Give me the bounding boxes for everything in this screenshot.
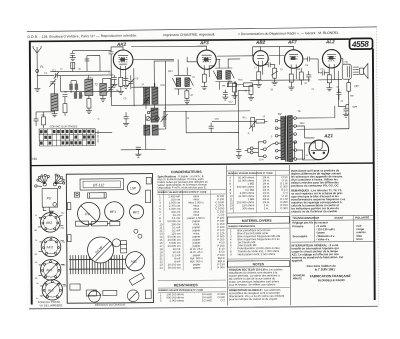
osc long wire right <box>158 61 166 129</box>
sheet number box 4558 <box>349 38 372 49</box>
wire bottom bus <box>60 75 121 91</box>
svg-text:RÉSISTANCES: RÉSISTANCES <box>174 282 199 287</box>
svg-text:DESSOUS DU CHASSIS: DESSOUS DU CHASSIS <box>95 303 126 307</box>
grid cap wire AF7 <box>280 46 294 64</box>
capacitor C12 <box>306 71 311 82</box>
resistor under MF1 R14 <box>185 89 194 101</box>
svg-text:PU: PU <box>47 196 52 200</box>
osc long wire left <box>134 68 144 106</box>
svg-text:AVANT: AVANT <box>334 216 343 220</box>
svg-text:4558: 4558 <box>351 39 370 49</box>
wire C1 to grid bus <box>57 74 113 76</box>
svg-text:350v: 350v <box>300 123 306 125</box>
IF transformer MF1 <box>172 75 193 89</box>
svg-text:⁄ valve 4 v.: ⁄ valve 4 v. <box>315 237 330 241</box>
resistor R4 <box>202 74 206 87</box>
svg-text:100.000 ohms600.000 ohms2.000: 100.000 ohms600.000 ohms2.000 ohms <box>166 292 184 302</box>
volume potentiometer P1 <box>271 65 278 83</box>
ground <box>34 88 40 91</box>
small capacitor block <box>112 239 120 247</box>
tube AF7 <box>284 39 303 68</box>
svg-text:châssis vu de l'intérieur: châssis vu de l'intérieur du meuble. <box>291 209 338 213</box>
svg-text:AF3: AF3 <box>46 245 52 249</box>
wire mid link <box>103 78 111 87</box>
ground under C19 <box>123 123 129 126</box>
wire HT secondary to AZ1 <box>296 106 335 138</box>
filter capacitor C15 <box>343 105 349 118</box>
screen bus <box>154 60 235 105</box>
capacitor C10 <box>265 62 275 67</box>
svg-text:C16: C16 <box>215 119 220 121</box>
svg-text:OSC: OSC <box>160 85 165 87</box>
resistor R1 <box>63 104 67 116</box>
transformer secondary terminals <box>292 117 296 161</box>
wire AK2 cathode down <box>121 68 126 80</box>
svg-text:CONTACTEUR ONDES: CONTACTEUR ONDES <box>50 124 78 128</box>
pick-up terminal box PU <box>42 189 58 214</box>
rotary switch wafer SW-B <box>53 174 65 189</box>
svg-text:AK2: AK2 <box>46 221 53 225</box>
cap on AK2 grid <box>109 52 114 76</box>
chassis grommet B <box>127 290 139 302</box>
trimmer CA1 <box>49 79 56 87</box>
svg-text:C12: C12 <box>228 102 233 104</box>
tube socket AF3 (rear view) <box>41 237 61 257</box>
side lug 2 <box>68 235 71 242</box>
frame right border <box>373 48 375 299</box>
transformer primary taps <box>275 119 281 159</box>
heater rail <box>217 55 284 57</box>
svg-text:MF1: MF1 <box>110 210 117 214</box>
padder trimmer O1 <box>146 116 150 120</box>
tube socket AL2 (rear view) <box>42 280 63 301</box>
rotary switch wafer SW-A <box>35 174 50 187</box>
wire AB2 down <box>259 64 263 75</box>
column rule 3 <box>290 165 291 305</box>
tube AZ1 <box>309 133 334 159</box>
aerial coupling cap C2 <box>70 53 75 57</box>
wire MF1 secondary to AF3 <box>187 57 197 76</box>
IF transformer MF2 <box>213 68 234 82</box>
tube AL2 <box>322 39 341 68</box>
chassis grommet A <box>88 290 101 302</box>
ground under R10 <box>326 88 332 91</box>
svg-text:VU DE L'ARRIERE: VU DE L'ARRIERE <box>39 303 62 307</box>
coil flag <box>129 273 144 285</box>
ground under C18 <box>222 97 228 100</box>
svg-text:NUMERO DESIGNATION: NUMERO DESIGNATION <box>228 225 255 228</box>
wire mains cord <box>253 148 258 152</box>
wire grid bus <box>36 111 54 113</box>
trimmer CA3 <box>142 95 149 109</box>
capacitor C19 <box>124 112 129 123</box>
wire MF2 primary top <box>219 60 220 90</box>
ground under C17 <box>236 155 242 158</box>
svg-text:F1: F1 <box>40 65 44 69</box>
svg-text:NUMERO VALEUR PUISSANCE N°: NUMERO VALEUR PUISSANCE N° CODE <box>228 172 273 175</box>
svg-text:TS: TS <box>344 60 348 64</box>
svg-text:pour les lampes du cadran et d: pour les lampes du cadran et du voyant. <box>229 297 278 301</box>
svg-text:positions du contacteur PO,: positions du contacteur PO, GO, OC. <box>291 183 339 187</box>
svg-text:72: 72 <box>94 82 98 86</box>
dial drive bar <box>88 193 107 198</box>
resistor R13 <box>249 85 253 98</box>
svg-text:+33: +33 <box>31 157 37 161</box>
wire AF3 anode <box>216 59 220 61</box>
capacitor C3 <box>62 95 67 104</box>
svg-text:C13: C13 <box>320 69 325 71</box>
capacitor C11 <box>308 56 315 61</box>
svg-text:AZ1: AZ1 <box>131 260 137 264</box>
coil L2 <box>85 75 98 98</box>
svg-text:CONDENSATEURS: CONDENSATEURS <box>171 170 202 174</box>
svg-text:LSP: LSP <box>130 186 136 190</box>
filter choke <box>121 241 127 253</box>
fuse F1 <box>36 65 44 73</box>
resistor board strip <box>76 221 120 226</box>
svg-text:pour le secteur. Se référer au: pour le secteur. Se référer aux valeurs <box>229 282 276 286</box>
grid cap wire AK2 <box>111 47 123 52</box>
socket stubs <box>38 216 66 296</box>
svg-text:Imprimerie CHANTRIE, Argenteui: Imprimerie CHANTRIE, Argenteuil. <box>163 32 215 37</box>
ground under R3 <box>118 91 124 94</box>
svg-text:AZ1: AZ1 <box>323 133 333 138</box>
wire AZ1 output <box>296 128 348 130</box>
svg-text:Secondaire: Secondaire <box>292 234 307 238</box>
svg-text:AF7: AF7 <box>46 268 52 272</box>
wire osc bottom <box>121 114 166 150</box>
ground under C6 <box>111 84 117 87</box>
wire table to cadre <box>95 131 112 133</box>
wire AK2 anode right <box>133 58 174 60</box>
grid bus 2 <box>50 70 110 72</box>
mounting lug <box>70 284 80 290</box>
resistor R7 <box>257 72 261 85</box>
wire antenna down <box>36 60 38 76</box>
wire heater run <box>297 150 319 160</box>
ground under C7 <box>123 85 129 88</box>
ground under C2 <box>70 58 76 61</box>
decoupling loop wire <box>186 132 239 149</box>
CONDENSATEURS column <box>157 170 226 303</box>
svg-text:NUMERO VALEUR SPECIFICATION: NUMERO VALEUR SPECIFICATION N° CODE <box>158 191 207 194</box>
resistor R3 <box>119 77 123 91</box>
ground under R12 <box>232 95 238 98</box>
wire AZ1 filament loop <box>293 141 315 160</box>
volume potentiometer P2 <box>249 117 256 131</box>
padding capacitor block PA2 <box>74 78 92 99</box>
field coil resistor RE <box>347 79 351 129</box>
side lug 1 <box>67 203 70 210</box>
svg-text:AF3: AF3 <box>199 40 209 45</box>
wire HT riser <box>335 128 349 130</box>
tube AB2 <box>253 40 268 66</box>
capacitor C4 <box>34 112 39 126</box>
chassis outline <box>66 174 153 304</box>
svg-text:AL2: AL2 <box>48 288 54 292</box>
svg-text:AF7: AF7 <box>287 40 297 45</box>
padder capacitor CP <box>161 111 168 127</box>
resistor R10 <box>327 75 331 88</box>
svg-text:PO GO OC: PO GO OC <box>96 130 99 142</box>
wire AF7 anode <box>303 58 308 60</box>
AVC bus <box>111 74 235 105</box>
capacitor C13 <box>322 67 329 76</box>
ground under R14 <box>184 101 190 104</box>
trimmer C1 <box>52 68 59 79</box>
wire antenna to C1 <box>37 74 54 76</box>
svg-text:Disposition P et Pi, et de ser: Disposition P et Pi, et de service pour … <box>158 185 207 189</box>
tuning gang CV <box>77 202 100 225</box>
footer rule <box>29 306 378 309</box>
oscillator coil OSC2 <box>151 104 158 122</box>
wire osc to AK2 <box>131 87 154 95</box>
CHASSIS BOX placeholder <box>66 174 153 307</box>
oscillator coil OSC1b <box>152 83 158 104</box>
ground under P1 <box>272 82 278 85</box>
branch wire x86 <box>86 59 88 72</box>
wire top rail to AK2 grid <box>72 51 74 72</box>
AVC return bus <box>250 79 342 82</box>
BOTTOM LEFT column placeholder <box>34 174 67 308</box>
detection line wire <box>212 120 253 122</box>
SCHEMATIC AREA PLACEHOLDER <box>31 39 369 163</box>
wire AB2 return riser <box>238 90 251 132</box>
svg-text:MF2: MF2 <box>133 210 140 214</box>
grid rail AK2 <box>73 49 111 51</box>
rectifier socket AZ1 pos <box>125 252 144 271</box>
resistor R11 <box>253 120 268 124</box>
capacitor C5 <box>127 75 134 89</box>
perforation dotted line <box>377 28 379 304</box>
band switch table marks <box>40 130 94 145</box>
caption rear view <box>38 300 63 308</box>
mains plug <box>245 147 253 154</box>
svg-text:R10: R10 <box>238 79 243 81</box>
ground under R13 <box>248 97 254 100</box>
svg-text:marron: marron <box>356 230 366 234</box>
ground under L2 <box>86 111 92 114</box>
padder trimmer O2 <box>155 116 159 120</box>
resistor R21 under L2 <box>87 99 91 111</box>
column rule 2 <box>227 166 228 306</box>
ground under C20 <box>135 154 141 157</box>
svg-text:R5: R5 <box>228 79 232 83</box>
oscillator coil OSC3 <box>144 125 158 135</box>
svg-text:8MF: 8MF <box>352 107 357 109</box>
frame left border <box>30 41 32 305</box>
svg-text:brun: brun <box>356 237 362 241</box>
mains voltage selector S2 <box>258 140 275 157</box>
svg-text:MATÉRIEL DIVERS: MATÉRIEL DIVERS <box>242 218 273 223</box>
header rule <box>27 27 377 39</box>
trimmer CA2 <box>107 84 114 97</box>
IF can MF1 <box>105 202 124 221</box>
band switch wafer S1 <box>147 109 154 114</box>
svg-text:RE: RE <box>350 96 354 98</box>
svg-text:BLONDELLE RADIO: BLONDELLE RADIO <box>318 278 346 282</box>
output transformer TS <box>342 60 351 79</box>
svg-text:le 7 JUIN 1951: le 7 JUIN 1951 <box>315 267 336 271</box>
power transformer TR <box>278 112 293 162</box>
capacitor C7 <box>123 75 128 85</box>
wire AL2 anode <box>341 59 343 65</box>
svg-text:MF2: MF2 <box>210 66 215 68</box>
capacitor C17 <box>236 149 241 155</box>
svg-text:Réglage des fils du secteur: Réglage des fils du secteur <box>292 220 329 224</box>
resistor R6 <box>241 83 256 87</box>
svg-text:O: O <box>164 108 166 110</box>
capacitor C16 <box>209 123 214 133</box>
top feed rail <box>131 46 280 48</box>
dial scale BT-112 <box>80 179 124 190</box>
svg-text:Primaire: Primaire <box>292 224 304 228</box>
column 3 : remarques + transformateur + fabrication <box>291 168 374 282</box>
svg-text:AK2: AK2 <box>116 42 127 47</box>
svg-text:TR: TR <box>298 111 301 113</box>
lamp bracket <box>75 192 80 197</box>
tube socket AF7 (rear view) <box>40 260 61 281</box>
svg-text:MF1: MF1 <box>168 71 173 73</box>
capacitor C18 <box>223 90 228 98</box>
power trans pos <box>145 290 151 299</box>
wire MF1 primary <box>177 59 179 94</box>
svg-text:appareil.: appareil. <box>292 258 304 262</box>
svg-text:AL2: AL2 <box>325 39 335 44</box>
wire MF2 secondary <box>228 59 240 87</box>
svg-text:TRANSFORMATEUR: TRANSFORMATEUR <box>292 216 319 220</box>
resistor R8 <box>289 74 293 87</box>
tube socket AK2 (rear view) <box>39 212 60 232</box>
resistor R2 <box>42 112 46 128</box>
output trans pos <box>86 290 117 296</box>
wire AF7 to AL2 grid <box>314 59 322 73</box>
svg-text:HP: HP <box>354 84 358 88</box>
resistor R12 <box>233 81 237 95</box>
coil L1 <box>51 84 58 114</box>
ground under R8 <box>288 87 294 90</box>
HT bus <box>164 110 250 133</box>
frame top border <box>29 39 349 41</box>
svg-text:G: G <box>98 118 100 120</box>
schematic / parts divider <box>30 163 374 166</box>
ground under R4 <box>201 87 207 90</box>
wire AF7 cathode <box>291 67 296 79</box>
side lug 3 <box>146 190 151 203</box>
svg-text:1/4 watt.1/4 watt.1/2 watt.: 1/4 watt.1/4 watt.1/2 watt. <box>202 292 213 302</box>
svg-text:N 100C 100C 1000C 2375C 1000C: N 100C 100C 1000C 2375C 1000C 100C 50P 1… <box>215 194 225 269</box>
tube AF3 <box>197 40 216 69</box>
grid cap wire AF3 <box>197 46 207 50</box>
coil L3 <box>100 78 107 98</box>
wire AL2 cathode <box>329 67 334 80</box>
electrolytic condenser can <box>87 237 113 263</box>
capacitor C20 <box>136 147 141 154</box>
svg-text:⁄ jaune: ⁄ jaune <box>315 230 325 234</box>
value labels <box>41 59 358 163</box>
padding capacitor block PA1 <box>69 81 78 93</box>
column 2 : resistances suite + materiel divers + notes <box>227 170 290 301</box>
svg-text:NUMERO VALEUR PUISSANCE N°: NUMERO VALEUR PUISSANCE N° CODE <box>158 289 203 292</box>
svg-text:AB2: AB2 <box>255 40 266 45</box>
speaker connector LSP <box>127 181 140 194</box>
resistor R9 <box>299 68 303 85</box>
TEXT COLUMNS placeholder <box>157 164 374 306</box>
corner bracket <box>146 177 151 184</box>
ground under L3 <box>100 98 106 101</box>
trimmer pair <box>134 229 142 238</box>
IF can MF2 <box>130 205 144 219</box>
wire AB2 top <box>253 47 261 56</box>
resistor R20 <box>71 62 75 68</box>
output return loop <box>338 71 346 107</box>
ground under L1 <box>52 114 58 117</box>
capacitor C6 <box>112 75 117 84</box>
wire AF3 cathode resistor <box>204 68 209 77</box>
band switch table <box>39 129 95 147</box>
tube AK2 <box>113 42 133 70</box>
ground under R7 <box>256 84 262 87</box>
capacitor C14 <box>336 89 341 100</box>
speaker HP <box>353 64 368 89</box>
resistor R5 <box>227 79 241 87</box>
wire down to ground <box>36 76 38 88</box>
antenna <box>33 46 41 60</box>
wire branch top <box>87 55 100 71</box>
capacitor C21 <box>85 56 90 61</box>
svg-text:NOTES: NOTES <box>253 262 265 266</box>
oscillator coil OSC1a <box>144 87 150 104</box>
terminal comb strip <box>69 255 126 274</box>
svg-text:BT-112: BT-112 <box>93 183 104 187</box>
socket voltage labels <box>34 213 67 300</box>
